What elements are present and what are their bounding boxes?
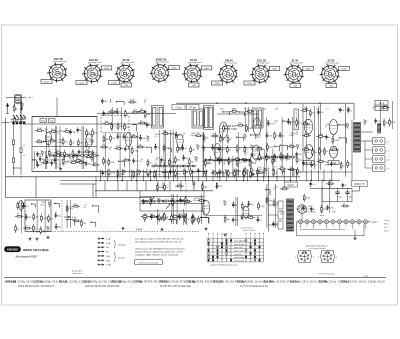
tube output pentode V8 EL84 (329, 120, 337, 138)
svg-text:R17 2,2M: R17 2,2M (6, 282, 16, 284)
svg-text:GRUNDIG: GRUNDIG (7, 249, 18, 252)
svg-text:R3 470k: R3 470k (319, 281, 329, 284)
ground symbol 3 (47, 236, 49, 238)
svg-text:0,5M: 0,5M (48, 159, 53, 161)
svg-text:Fassung unten: Fassung unten (156, 61, 169, 64)
component chain IF row (152, 162, 197, 170)
svg-text:1kΩ: 1kΩ (192, 85, 196, 87)
wire mid rail (97, 113, 176, 115)
tube triode V9a (202, 201, 210, 218)
svg-text:Taste L gedr.: Taste L gedr. (234, 250, 245, 253)
tube triode V4 (177, 134, 183, 151)
pushbutton switch contact table (207, 234, 265, 267)
svg-text:1M: 1M (205, 138, 208, 140)
svg-text:Tonabn.: Tonabn. (118, 258, 126, 260)
svg-text:s. Vorderansicht: s. Vorderansicht (240, 226, 254, 229)
tube socket diagram ECH 81 (V2) (76, 59, 112, 85)
svg-text:0,5M: 0,5M (193, 220, 198, 222)
svg-text:Fassung unten: Fassung unten (256, 62, 269, 65)
wire top HT bus (176, 102, 354, 104)
AM tuner box (32, 117, 97, 172)
wire short rail (60, 183, 96, 185)
svg-text:Sperrkreis: Sperrkreis (234, 254, 242, 256)
svg-text:1: 1 (246, 236, 247, 238)
svg-text:0,5M: 0,5M (207, 163, 212, 165)
svg-text:C19 25µ: C19 25µ (187, 282, 197, 284)
wire HF/ZF dashed (30, 231, 200, 233)
svg-text:C28 2n: C28 2n (290, 282, 298, 284)
tone bottom cluster (159, 213, 203, 225)
svg-text:C4 12p: C4 12p (237, 281, 245, 284)
potentiometer dashed links (149, 196, 151, 216)
svg-text:0,1/25: 0,1/25 (214, 83, 220, 85)
wire bottom bus 2 (6, 176, 301, 178)
svg-text:Gemessen mit GRUNDIG Röhrenvol: Gemessen mit GRUNDIG Röhrenvoltmeter (135, 247, 185, 250)
volume pot column (294, 109, 299, 130)
label box EL84 right (328, 161, 339, 165)
svg-text:1M: 1M (275, 109, 278, 111)
label boxes top right (375, 101, 388, 106)
svg-text:1M: 1M (193, 200, 196, 202)
svg-text:2kΩ: 2kΩ (220, 109, 224, 111)
audio stage box (25, 200, 51, 232)
wire and component cluster (141, 209, 209, 225)
wire bottom bus 3 (60, 179, 340, 181)
wire and component cluster (142, 194, 208, 224)
wire and component cluster (222, 107, 254, 133)
wire vertical drop b (92, 184, 94, 198)
svg-text:Taste K gedr.: Taste K gedr. (234, 256, 245, 259)
wire and component cluster (202, 132, 265, 178)
tube socket diagram EABC 80 (V4) (149, 58, 179, 83)
svg-text:Fassung unten: Fassung unten (53, 60, 66, 63)
tube triode V9b (243, 207, 249, 221)
IF transformer Fi1 (152, 106, 164, 129)
svg-text:0,3A: 0,3A (106, 242, 111, 245)
svg-text:1M: 1M (140, 109, 143, 111)
wire and component cluster (32, 151, 94, 169)
svg-text:0,5M: 0,5M (37, 128, 42, 130)
wire vertical drop a (35, 177, 37, 198)
svg-text:4: 4 (319, 74, 320, 76)
label box EL84 left (303, 161, 314, 165)
tube pentode V3 EF89 (125, 133, 131, 150)
wire dipole to box (24, 97, 57, 99)
mains transformer Tr1 (268, 199, 294, 231)
IF transformer Fi3 (204, 106, 214, 130)
svg-text:„Musikgerät 4090“: „Musikgerät 4090“ (14, 254, 39, 258)
wire and component cluster (363, 101, 396, 129)
svg-text:B250 C75: B250 C75 (354, 184, 365, 186)
note box (135, 260, 163, 265)
svg-text:Diode: Diode (379, 109, 385, 111)
svg-text:4: 4 (259, 236, 260, 238)
tube socket diagram ECC 85 (V1) (41, 58, 67, 84)
wire and component cluster (300, 106, 353, 170)
svg-text:1kΩ: 1kΩ (124, 85, 128, 87)
wire tone rail 2 (140, 203, 204, 205)
UKW Bst dashed box (101, 116, 129, 133)
wire and component cluster (15, 200, 62, 235)
svg-text:Fassung unten: Fassung unten (326, 62, 339, 65)
svg-text:Geräte-Rückw.: Geräte-Rückw. (243, 229, 256, 232)
heater arrow 6.3V (64, 216, 70, 218)
svg-text:100A: 100A (106, 264, 111, 267)
svg-text:3: 3 (255, 236, 256, 238)
svg-text:170p: 170p (41, 121, 45, 123)
output transformer Tr2 (354, 123, 381, 153)
IF transformer Fi2 (192, 109, 204, 128)
wire power vertical (268, 180, 270, 231)
svg-text:R31 1M: R31 1M (214, 282, 222, 284)
parts list row 1 bold segments (6, 281, 350, 284)
wire and component cluster (35, 126, 100, 169)
label box G.Bst (172, 104, 185, 109)
tube socket diagram EF 89 (V3) (109, 59, 135, 87)
svg-text:1: 1 (266, 82, 267, 84)
svg-text:1M: 1M (112, 138, 115, 140)
svg-text:Netztr.: Netztr. (288, 184, 295, 187)
svg-text:4: 4 (149, 73, 150, 75)
svg-text:g: g (313, 256, 314, 258)
svg-text:4: 4 (82, 74, 83, 76)
svg-text:0,1A: 0,1A (106, 238, 111, 241)
svg-text:möglich. Alle Werte ohne Gewäh: möglich. Alle Werte ohne Gewähr. (135, 254, 180, 257)
svg-text:ZF Bst: ZF Bst (189, 106, 196, 109)
svg-text:1: 1 (233, 82, 234, 84)
svg-text:Fassung unten: Fassung unten (224, 62, 237, 65)
svg-text:Str.-Spannung 6,15 kW (49 m): Str.-Spannung 6,15 kW (49 m) Orts-S. (135, 240, 183, 243)
svg-text:0,1: 0,1 (326, 109, 329, 111)
svg-text:0,5M: 0,5M (225, 128, 230, 130)
svg-text:Printed in Germany: Printed in Germany (318, 273, 334, 276)
svg-text:50kΩ: 50kΩ (104, 68, 109, 70)
voltage selector S2 (298, 205, 315, 214)
svg-text:Skala: Skala (384, 224, 389, 226)
svg-text:Dr1 8H Dr2 2,5H Si 0,8A träg: Dr1 8H Dr2 2,5H Si 0,8A träge (160, 285, 192, 288)
svg-text:Taste TA gedr.: Taste TA gedr. (234, 240, 246, 243)
svg-text:0,1/25: 0,1/25 (111, 83, 117, 85)
ground symbol 7 (224, 233, 226, 235)
speaker terminal J2 (373, 147, 390, 154)
svg-text:Änderungen: Änderungen (72, 270, 82, 273)
wire speaker leads (361, 131, 373, 133)
svg-text:0,5M: 0,5M (57, 142, 62, 144)
tube diode-triode V6b (252, 145, 260, 163)
svg-text:R9 300: R9 300 (160, 282, 168, 284)
svg-text:2: 2 (213, 236, 214, 238)
svg-text:4: 4 (222, 236, 223, 238)
wire AF rail upper (95, 190, 213, 192)
ground lamp strip (354, 230, 356, 237)
svg-text:6: 6 (231, 236, 232, 238)
svg-text:4: 4 (283, 74, 284, 76)
wire rail y172 right (300, 171, 352, 173)
svg-text:C12 5n: C12 5n (83, 282, 91, 284)
svg-text:WEKO 59/14 (809): WEKO 59/14 (809) (23, 248, 49, 252)
wire and component cluster (102, 107, 153, 131)
wire and component cluster (154, 130, 204, 179)
tube UKW triode V1b (19, 201, 24, 213)
wire bottom bus 1 (32, 171, 205, 173)
wire and component cluster (66, 200, 98, 228)
wire right vertical x340 (302, 104, 304, 172)
tube triode V1a (45, 132, 51, 148)
dial lamp strip La1-La11 (297, 220, 371, 236)
svg-text:1M: 1M (246, 171, 249, 173)
tube socket diagram EZ 80 (V9) (319, 59, 349, 87)
svg-text:Masse: Masse (384, 231, 389, 233)
svg-text:Fassung unten: Fassung unten (290, 62, 303, 65)
svg-text:0,5M: 0,5M (269, 147, 274, 149)
wire drops to AF rail (104, 181, 106, 191)
svg-text:HF/ZF: HF/ZF (136, 229, 143, 232)
svg-text:1: 1 (165, 81, 166, 83)
svg-text:4: 4 (217, 74, 218, 76)
bottom rule (4, 277, 386, 279)
svg-text:0,1/25: 0,1/25 (247, 83, 253, 85)
tube pentode V5b (253, 118, 261, 138)
svg-text:10A: 10A (106, 255, 110, 258)
svg-text:Sperrkreis: Sperrkreis (234, 247, 242, 249)
AM box divider (32, 146, 97, 148)
antenna coil column (12, 124, 26, 177)
wire selector (297, 208, 298, 210)
svg-text:EL84: EL84 (303, 253, 307, 255)
svg-text:EM84: EM84 (325, 253, 329, 255)
svg-text:gedrückte Stellung (beim. je: gedrückte Stellung (beim. jew.) (210, 264, 238, 267)
wire and component cluster (156, 182, 223, 192)
legend current arrows (98, 237, 127, 266)
wire and component cluster (265, 184, 289, 228)
svg-text:0,5M: 0,5M (232, 109, 237, 111)
svg-text:0,5M: 0,5M (143, 214, 148, 216)
wire and component cluster (100, 132, 153, 178)
svg-text:1M: 1M (88, 163, 91, 165)
ground symbol 5 (161, 228, 163, 230)
wire and component cluster (204, 156, 262, 178)
wire tone rail 1 (140, 196, 204, 198)
svg-text:C22 0,1: C22 0,1 (341, 282, 350, 284)
svg-text:220V~: 220V~ (308, 206, 315, 208)
svg-text:4: 4 (250, 74, 251, 76)
tube socket diagram EL 84 (V5) (182, 59, 212, 87)
svg-text:Fassung unten: Fassung unten (121, 61, 134, 64)
svg-text:1: 1 (63, 81, 64, 83)
speaker terminal J3 (373, 156, 390, 163)
GRUNDIG logo (5, 247, 21, 252)
wire and component cluster (101, 99, 145, 105)
wire mid bus detector (201, 147, 262, 149)
IF transformer Fi4 (252, 108, 263, 128)
svg-text:g: g (336, 256, 337, 258)
svg-text:1M: 1M (282, 186, 285, 188)
svg-text:Taste M gedr.: Taste M gedr. (234, 243, 245, 246)
svg-text:50kΩ: 50kΩ (306, 69, 311, 71)
svg-text:1M: 1M (386, 123, 389, 125)
svg-text:0,5M: 0,5M (134, 150, 139, 152)
svg-text:50kΩ: 50kΩ (172, 68, 177, 70)
svg-text:0,5M: 0,5M (251, 163, 256, 165)
svg-text:5: 5 (263, 236, 264, 238)
wire AM box second rail (25, 123, 150, 125)
svg-text:1M: 1M (155, 160, 158, 162)
svg-text:Skala: Skala (320, 215, 325, 217)
tube socket diagram EM 84 (V6) (212, 59, 238, 85)
wire and component cluster (13, 101, 26, 125)
ground symbol 4 (122, 227, 124, 229)
svg-text:C31 10n: C31 10n (34, 282, 44, 284)
svg-text:Taste K gedr.: Taste K gedr. (234, 259, 245, 262)
svg-text:6,3V~: 6,3V~ (372, 221, 379, 224)
component chain AM box (50, 151, 99, 160)
wire dashed vertical x186 (185, 183, 187, 212)
tube hexode V2 (86, 134, 92, 150)
ground symbol 2 (36, 237, 38, 239)
tube pentode V5a (219, 122, 227, 141)
svg-text:1M: 1M (80, 143, 83, 145)
svg-text:s.Bstg: s.Bstg (384, 219, 389, 222)
svg-text:R19 10k R20 5k R21 1M R22 5: R19 10k R20 5k R21 1M R22 50k (85, 286, 120, 288)
svg-text:0,5M: 0,5M (260, 206, 265, 208)
wire AF rail lower (6, 197, 153, 199)
wire dashed vertical x62 (61, 200, 63, 232)
svg-text:gegen Masse. Abweichungen bis: gegen Masse. Abweichungen bis ±15% (135, 251, 183, 254)
wire left edge vertical (5, 118, 7, 198)
svg-text:0,5M: 0,5M (248, 128, 253, 130)
component chain tone row (142, 198, 190, 206)
wire and component cluster (265, 117, 303, 177)
wire tone verticals (139, 191, 141, 211)
tube output pentode V7 EL84 (304, 119, 312, 136)
svg-text:0,5M: 0,5M (334, 140, 339, 142)
svg-text:Anschlüsse der Röhren: Anschlüsse der Röhren (306, 244, 328, 247)
wire right vertical x352 (351, 120, 353, 180)
svg-text:1: 1 (208, 236, 209, 238)
rectifier B250C75 and filter capacitors (310, 180, 368, 201)
svg-text:4: 4 (182, 74, 183, 76)
svg-text:30A: 30A (106, 259, 110, 262)
speaker terminal J4 (373, 165, 390, 172)
svg-text:0,5M: 0,5M (321, 151, 326, 153)
svg-text:0,5M: 0,5M (318, 134, 323, 136)
svg-text:4: 4 (114, 74, 115, 76)
svg-text:R22 0,5M: R22 0,5M (112, 282, 122, 284)
svg-text:0,5M: 0,5M (302, 108, 307, 110)
svg-text:5: 5 (226, 236, 227, 238)
svg-text:2: 2 (250, 236, 251, 238)
wire and component cluster (302, 179, 350, 214)
svg-text:vorbehalten: vorbehalten (72, 272, 82, 275)
wire tone rail 3 (140, 210, 204, 212)
svg-text:C7 50p: C7 50p (134, 282, 142, 284)
tube diode-triode V6a EABC80 (214, 144, 221, 162)
tube indicator V9 EM84 (305, 145, 313, 162)
svg-text:Gemessen umschaltb.: Gemessen umschaltb. (139, 261, 159, 264)
tube socket diagram EL 84 (V8) (283, 59, 313, 87)
svg-text:1M: 1M (192, 150, 195, 152)
svg-text:1kΩ: 1kΩ (329, 86, 333, 88)
wire and component cluster (244, 149, 302, 176)
ground symbol 10 (252, 173, 254, 175)
svg-text:1M: 1M (185, 158, 188, 160)
svg-text:Fassung unten: Fassung unten (88, 61, 101, 64)
speaker terminal J1 (373, 138, 390, 145)
svg-text:1M: 1M (298, 154, 301, 156)
ground symbol 8 (60, 167, 62, 169)
svg-text:1M: 1M (65, 129, 68, 131)
svg-text:4: 4 (47, 73, 48, 75)
tube base diagram EM84 (318, 251, 337, 262)
label box Netztrafo (285, 182, 298, 187)
svg-text:Tonband: Tonband (118, 245, 127, 247)
wire AM box top (32, 116, 97, 118)
svg-text:1M: 1M (132, 134, 135, 136)
component chain AF row (265, 154, 296, 162)
svg-text:0,1/25: 0,1/25 (79, 83, 85, 85)
svg-text:1M: 1M (65, 141, 68, 143)
svg-text:50kΩ: 50kΩ (204, 68, 209, 70)
svg-text:0,5M: 0,5M (105, 113, 110, 115)
ground symbol 9 (147, 173, 149, 175)
svg-text:0,5M: 0,5M (130, 100, 135, 102)
svg-text:a: a (295, 256, 296, 258)
wire driver bottom rail (206, 215, 262, 217)
svg-text:Fassung unten: Fassung unten (188, 61, 201, 64)
svg-text:R14 10k: R14 10k (264, 281, 274, 284)
svg-text:50kΩ: 50kΩ (272, 69, 277, 71)
potentiometer wiper P1 (150, 197, 154, 202)
svg-text:50k: 50k (50, 121, 53, 123)
svg-text:1M: 1M (280, 166, 283, 168)
svg-text:3: 3 (217, 236, 218, 238)
svg-text:La 7V 0,3A Skalenseil 1,2m: La 7V 0,3A Skalenseil 1,2m (240, 285, 268, 288)
ground symbol 1 (29, 237, 31, 239)
tube rectifier V10 EZ80 (330, 146, 338, 161)
svg-text:0,1/25: 0,1/25 (44, 82, 50, 84)
wire stubs across bottom buses (100, 170, 332, 182)
svg-text:0,5M: 0,5M (221, 149, 226, 151)
tube base diagram EL84 (295, 251, 314, 262)
svg-text:1M: 1M (305, 163, 308, 165)
svg-text:Die Spannungen 9,35 kW (37 m: Die Spannungen 9,35 kW (37 m) Orts-S. (135, 237, 185, 240)
svg-text:G.Bst: G.Bst (176, 106, 182, 109)
ground symbol 6 (205, 227, 207, 229)
svg-text:1kΩ: 1kΩ (293, 86, 297, 88)
antenna input group (2, 95, 33, 125)
svg-text:R15 0,3M R16 2k R17 1M R18: R15 0,3M R16 2k R17 1M R18 470 (18, 286, 55, 288)
svg-text:50kΩ: 50kΩ (342, 69, 347, 71)
wire and component cluster (223, 197, 264, 226)
potentiometer wiper P3 (182, 197, 186, 202)
svg-text:R5 1,2k: R5 1,2k (59, 282, 68, 284)
tube socket diagram ECC 83 (V7) (244, 59, 280, 85)
component chain detector row (205, 156, 251, 165)
svg-text:a: a (318, 256, 319, 258)
svg-text:v. d. Lötseite Novalf.: v. d. Lötseite Novalf. (309, 247, 326, 250)
svg-text:1: 1 (98, 82, 99, 84)
potentiometer wiper P2 (166, 204, 170, 209)
